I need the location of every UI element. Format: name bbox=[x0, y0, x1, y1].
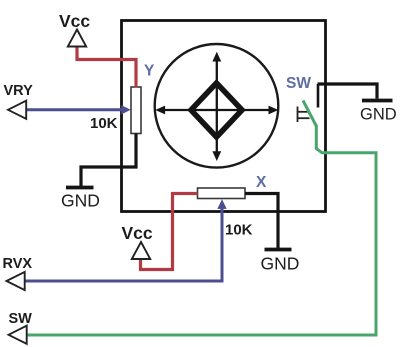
svg-text:GND: GND bbox=[261, 254, 300, 274]
svg-text:Y: Y bbox=[144, 63, 155, 80]
svg-text:GND: GND bbox=[360, 106, 397, 124]
joystick horizontal direction arrow bbox=[155, 106, 278, 115]
Vcc supply symbol top bbox=[68, 30, 86, 47]
joystick stick circle bbox=[155, 44, 279, 168]
svg-text:Vcc: Vcc bbox=[59, 11, 90, 31]
wire X pot right to ground (black) bbox=[245, 194, 278, 249]
label SW bottom bbox=[9, 311, 33, 327]
wire RVX (blue) with wiper arrow into X pot bbox=[26, 199, 227, 281]
svg-text:VRY: VRY bbox=[4, 83, 34, 99]
label GND bottom middle bbox=[261, 254, 300, 274]
switch push actuator symbol bbox=[298, 107, 310, 123]
svg-text:SW: SW bbox=[286, 75, 311, 92]
potentiometer X body bbox=[198, 188, 246, 199]
SW terminal arrow bbox=[9, 326, 27, 344]
RVX terminal arrow bbox=[7, 272, 25, 290]
label RVX bbox=[3, 256, 33, 272]
potentiometer Y body bbox=[131, 87, 141, 134]
svg-text:RVX: RVX bbox=[3, 256, 33, 272]
Vcc supply symbol bottom bbox=[132, 242, 150, 259]
label GND left bbox=[61, 191, 100, 211]
svg-text:Vcc: Vcc bbox=[122, 223, 153, 243]
wire switch to ground (black) bbox=[318, 84, 378, 99]
joystick module box U1 bbox=[122, 21, 326, 212]
ground GND2 symbol bbox=[265, 248, 292, 252]
svg-text:X: X bbox=[256, 174, 267, 191]
joystick knob diamond bbox=[191, 83, 242, 137]
ground GND3 symbol bbox=[362, 99, 393, 103]
switch SW fixed terminal bbox=[317, 84, 320, 108]
label GND right bbox=[360, 106, 397, 124]
label Vcc top bbox=[59, 11, 90, 31]
label Y bbox=[144, 63, 155, 80]
ground GND1 symbol bbox=[66, 186, 94, 190]
label Vcc bottom bbox=[122, 223, 153, 243]
label 10K for Y pot bbox=[90, 115, 118, 132]
label X bbox=[256, 174, 267, 191]
label 10K for X pot bbox=[225, 222, 253, 239]
joystick vertical direction arrow bbox=[212, 52, 221, 161]
wire VRY (blue) with wiper arrow into Y pot bbox=[26, 105, 131, 114]
wire Y pot bottom to ground (black) bbox=[81, 134, 136, 187]
wire Vcc to Y pot (red) bbox=[77, 47, 136, 88]
switch lever (green) bbox=[303, 101, 316, 127]
VRY terminal arrow bbox=[8, 101, 26, 119]
label VRY bbox=[4, 83, 34, 99]
svg-text:10K: 10K bbox=[90, 115, 118, 132]
wire SW to bottom left (green) bbox=[27, 125, 377, 336]
label SW right bbox=[286, 75, 311, 92]
svg-text:GND: GND bbox=[61, 191, 100, 211]
svg-text:SW: SW bbox=[9, 311, 33, 327]
wire Vcc to X pot (red) bbox=[141, 194, 198, 270]
svg-text:10K: 10K bbox=[225, 222, 253, 239]
